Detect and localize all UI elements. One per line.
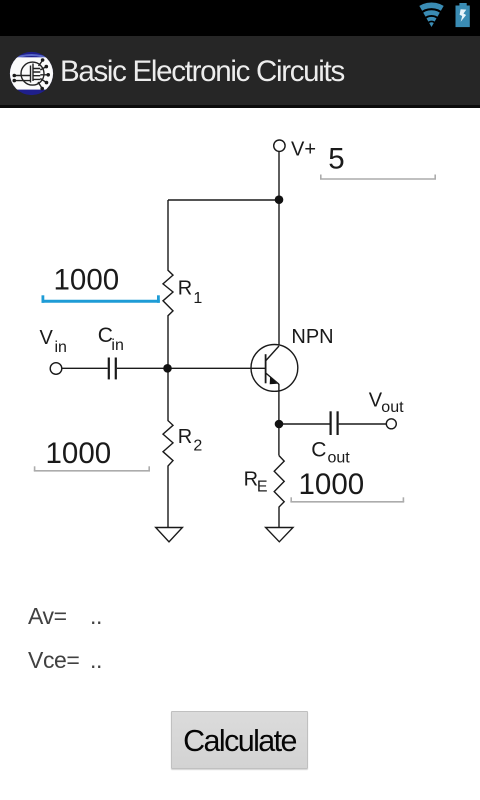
svg-text:R: R bbox=[178, 426, 192, 448]
svg-text:V+: V+ bbox=[291, 139, 316, 161]
svg-text:1000: 1000 bbox=[299, 468, 365, 501]
svg-text:E: E bbox=[257, 479, 268, 496]
svg-text:NPN: NPN bbox=[291, 326, 333, 348]
svg-text:1: 1 bbox=[193, 290, 202, 307]
svg-text:1000: 1000 bbox=[54, 263, 120, 296]
svg-text:V: V bbox=[40, 327, 54, 349]
svg-text:5: 5 bbox=[328, 143, 344, 176]
svg-text:C: C bbox=[311, 438, 326, 461]
svg-text:R: R bbox=[178, 278, 192, 300]
svg-text:in: in bbox=[111, 337, 123, 354]
svg-text:out: out bbox=[328, 450, 351, 467]
svg-text:2: 2 bbox=[193, 437, 202, 454]
svg-text:1000: 1000 bbox=[46, 437, 112, 470]
svg-text:R: R bbox=[244, 468, 258, 490]
svg-text:in: in bbox=[55, 339, 67, 356]
svg-text:out: out bbox=[381, 399, 404, 416]
